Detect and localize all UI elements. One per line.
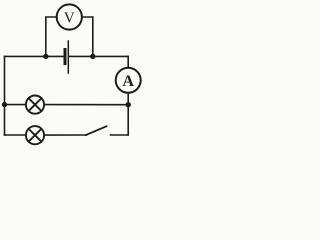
- switch S1 blade: [86, 126, 107, 135]
- wire left rail: [4, 56, 6, 135]
- wire bottom rail middle segment: [45, 134, 87, 136]
- voltmeter V: [57, 4, 82, 29]
- node junction left of battery: [43, 54, 48, 59]
- wire middle branch left lead: [5, 104, 26, 106]
- node junction middle branch left: [2, 102, 7, 107]
- wire bottom rail left lead: [5, 134, 26, 136]
- wire right rail below ammeter: [127, 94, 129, 136]
- battery cell: [65, 41, 68, 73]
- lamp L2: [26, 126, 44, 144]
- wire top rail right segment: [69, 55, 128, 57]
- wire switch right contact: [111, 134, 129, 136]
- wire voltmeter right lead: [82, 17, 92, 56]
- wire voltmeter left lead: [46, 17, 57, 56]
- ammeter A: [116, 68, 141, 93]
- lamp L1: [26, 96, 44, 114]
- wire middle branch right lead: [45, 104, 129, 106]
- node junction right of battery: [90, 54, 95, 59]
- wire top rail left segment: [5, 55, 64, 57]
- wire ammeter top lead: [127, 56, 129, 67]
- node junction middle branch right: [126, 102, 131, 107]
